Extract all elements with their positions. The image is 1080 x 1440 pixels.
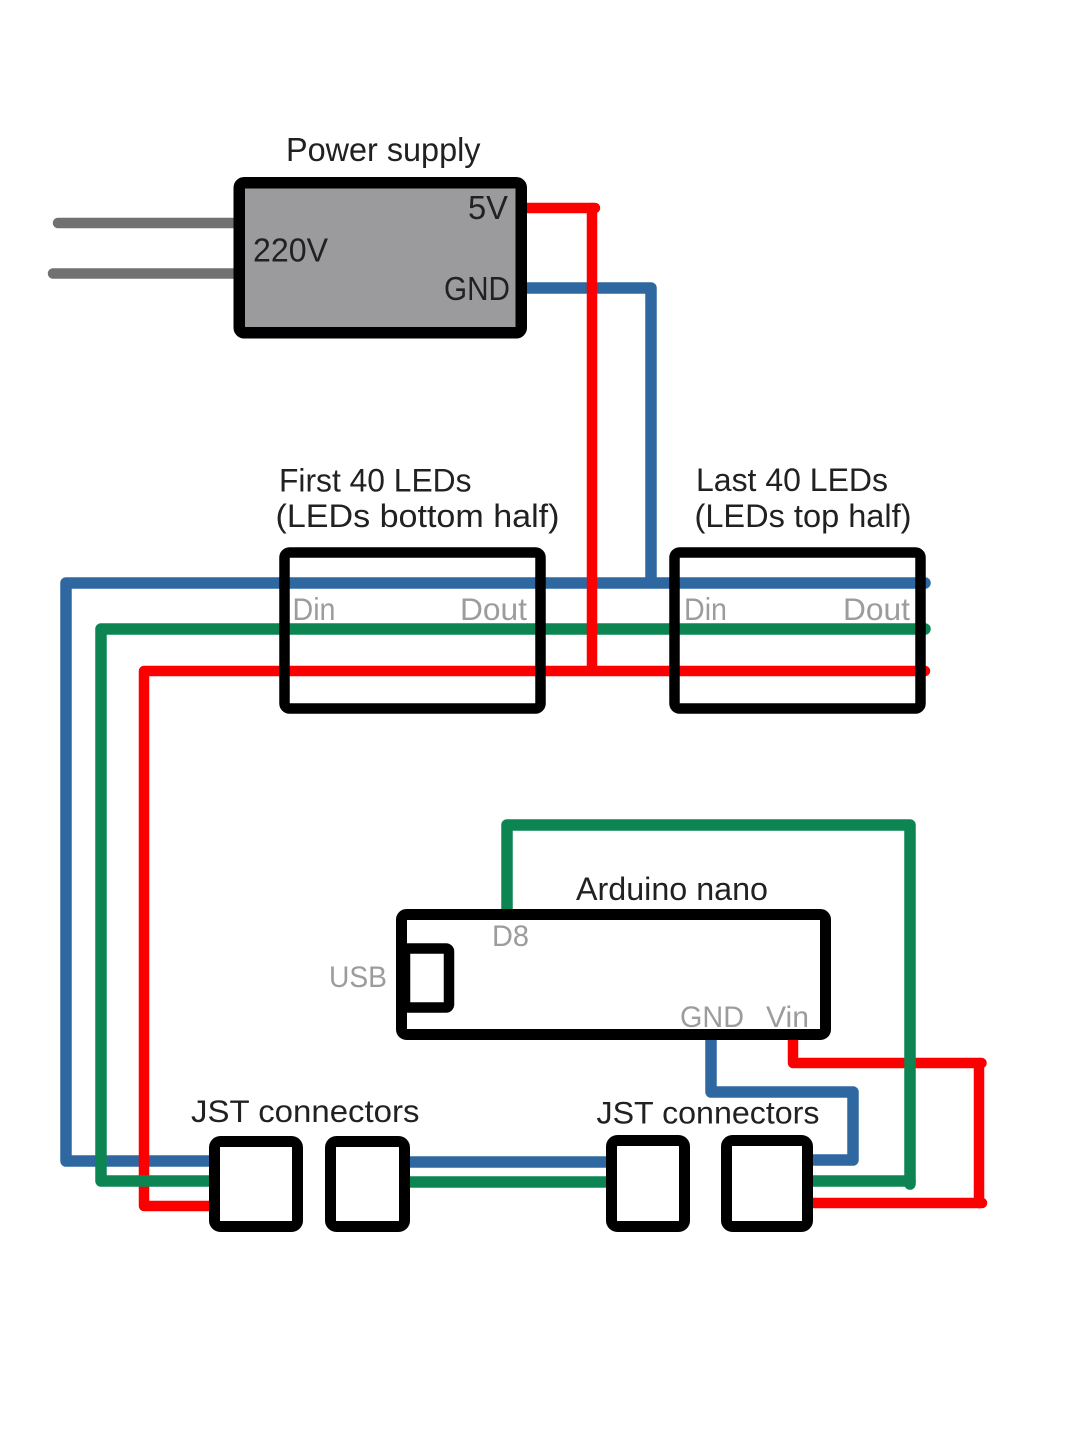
wire red 5V bus through LED strips, down left side to JST connector 1 — [144, 671, 925, 1206]
LED strip box 2 (Last 40 LEDs) — [675, 553, 921, 709]
LED strip box 1 (First 40 LEDs) — [285, 553, 541, 709]
wire 220V mains input bottom (gray) — [53, 268, 245, 279]
svg-text:First 40 LEDs: First 40 LEDs — [279, 463, 472, 499]
JST connector 4 — [727, 1141, 808, 1227]
wire red Arduino Vin to JST connector 4 — [793, 1032, 979, 1203]
svg-text:Dout: Dout — [460, 591, 527, 627]
wire blue Arduino GND to JST connector 4 — [711, 1032, 853, 1160]
svg-text:Vin: Vin — [766, 1001, 809, 1034]
svg-text:GND: GND — [680, 1001, 744, 1034]
wire stub red corner right of Vin elbow — [979, 1058, 982, 1069]
wire green data line through LED strips, down left side to JST connector 1 — [101, 629, 925, 1181]
svg-text:Dout: Dout — [843, 591, 910, 627]
svg-text:(LEDs bottom half): (LEDs bottom half) — [276, 498, 560, 534]
svg-text:Arduino nano: Arduino nano — [576, 871, 768, 907]
wire blue jumper JST connector 2 to JST connector 3 — [405, 1156, 611, 1168]
svg-text:JST connectors: JST connectors — [597, 1095, 820, 1131]
wire red 5V: power supply down to red bus — [518, 208, 592, 671]
svg-text:D8: D8 — [492, 920, 529, 953]
svg-text:Last 40 LEDs: Last 40 LEDs — [696, 462, 888, 498]
svg-text:Din: Din — [684, 591, 727, 627]
Arduino nano box — [402, 915, 826, 1035]
USB connector box — [405, 949, 449, 1008]
wire GND blue: power supply to blue bus — [518, 288, 651, 583]
svg-text:JST connectors: JST connectors — [191, 1093, 420, 1129]
svg-text:(LEDs top half): (LEDs top half) — [695, 498, 912, 534]
svg-text:GND: GND — [444, 270, 510, 307]
wire green Arduino D8 to JST connector 4 — [507, 825, 910, 1181]
wire stub green cap below JST connector 4 wire — [904, 1181, 916, 1184]
wire blue GND bus through LED strips, down left side to JST connector 1 — [66, 583, 925, 1161]
wire 220V mains input top (gray) — [58, 218, 245, 229]
svg-text:5V: 5V — [468, 189, 508, 226]
svg-text:Din: Din — [293, 591, 336, 627]
svg-text:Power supply: Power supply — [286, 131, 481, 168]
wire stub red corner bottom right — [979, 1198, 982, 1209]
power supply box — [239, 183, 521, 333]
JST connector 1 — [215, 1142, 298, 1227]
JST connector 2 — [331, 1142, 405, 1227]
svg-text:USB: USB — [329, 961, 387, 994]
wire stub red corner at power supply 5V elbow — [592, 203, 595, 214]
wire green jumper JST connector 2 to JST connector 3 — [405, 1176, 611, 1188]
svg-text:220V: 220V — [253, 232, 328, 269]
JST connector 3 — [612, 1141, 685, 1227]
